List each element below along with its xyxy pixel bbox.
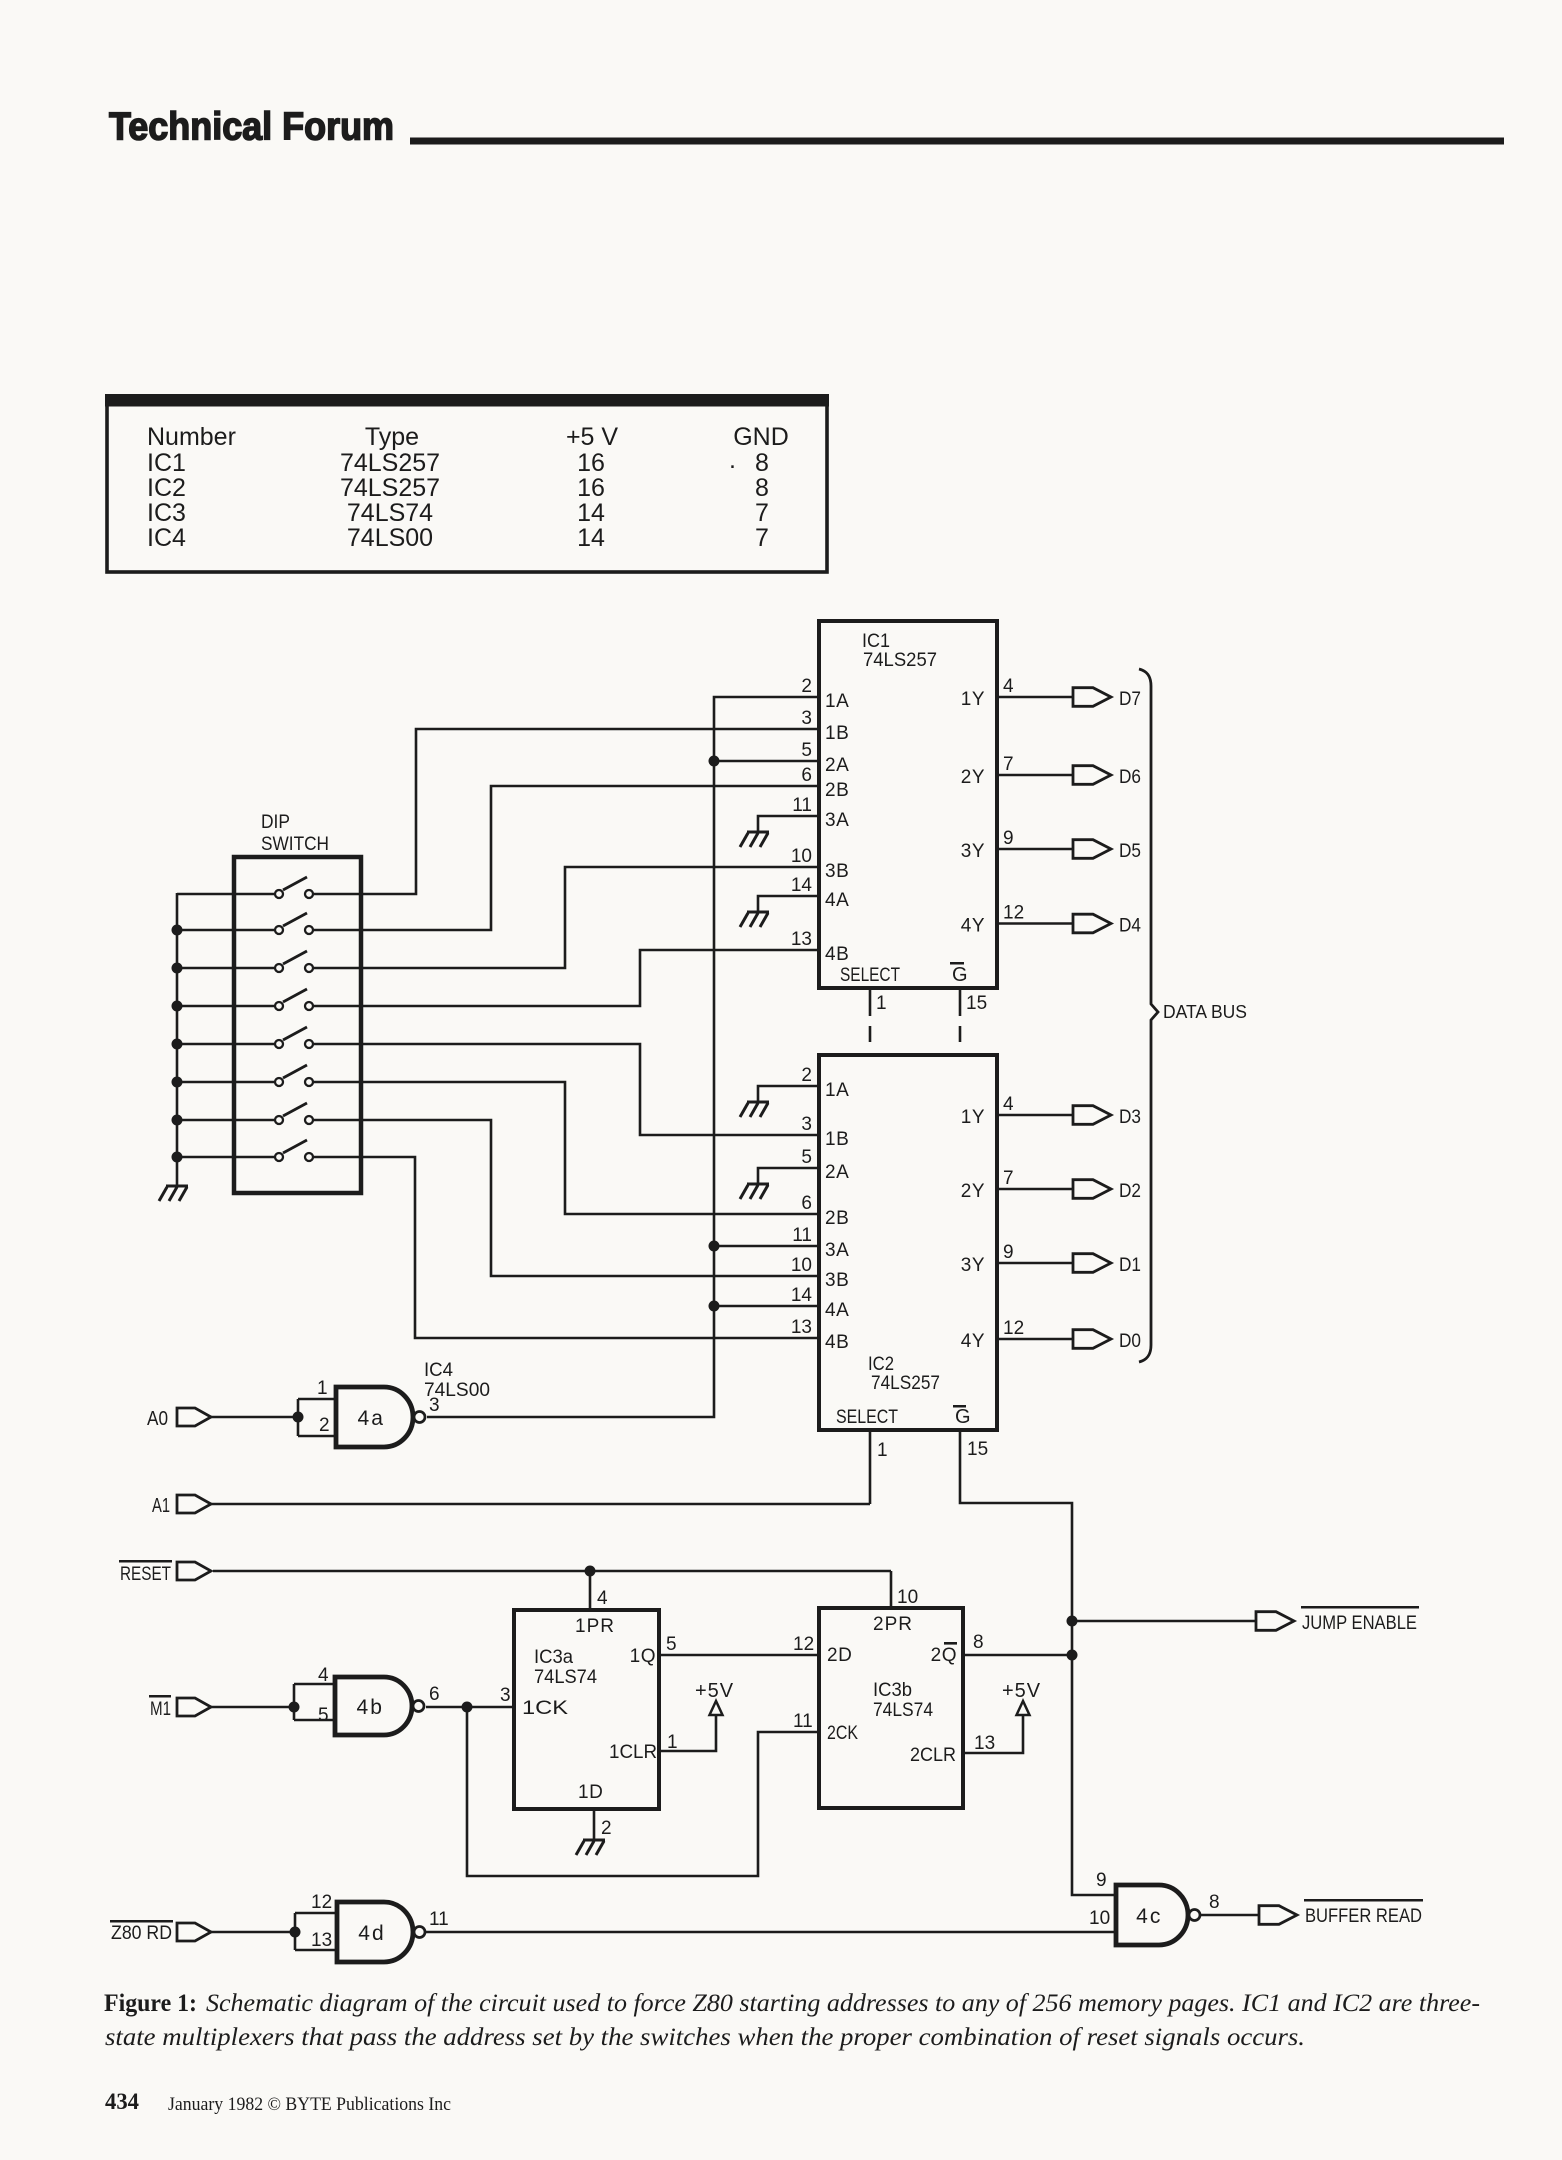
- output flag D7: [1073, 688, 1111, 707]
- svg-text:3: 3: [500, 1685, 511, 1706]
- junction A-select line at IC1 2A: [709, 756, 720, 767]
- ground (IC2 2A): [740, 1184, 769, 1199]
- wire to IC3a 1PR: [589, 1571, 592, 1610]
- svg-text:8: 8: [1209, 1892, 1220, 1913]
- input flag A0: [177, 1408, 211, 1426]
- svg-text:2A: 2A: [825, 1162, 849, 1183]
- svg-text:15: 15: [967, 1439, 988, 1460]
- svg-text:1: 1: [317, 1378, 328, 1399]
- svg-text:7: 7: [1003, 1168, 1014, 1189]
- svg-text:16: 16: [577, 474, 605, 502]
- svg-text:IC2: IC2: [868, 1354, 894, 1375]
- wire net from NAND 4a output to IC1 1A/2A and IC2 3A/4A: [427, 697, 819, 1417]
- svg-text:74LS00: 74LS00: [347, 524, 433, 552]
- junction RESET to 1PR: [585, 1566, 596, 1577]
- svg-text:D6: D6: [1119, 766, 1141, 788]
- wire IC2 4Y to D0: [997, 1338, 1073, 1341]
- svg-text:G: G: [955, 1406, 971, 1428]
- svg-text:4Y: 4Y: [961, 916, 985, 937]
- junction M1 split: [289, 1702, 300, 1713]
- svg-text:IC3: IC3: [147, 499, 186, 527]
- svg-text:1PR: 1PR: [575, 1616, 615, 1637]
- wire IC2 pin 1A to ground: [758, 1086, 819, 1102]
- svg-text:74LS257: 74LS257: [863, 650, 937, 671]
- svg-text:6: 6: [801, 765, 812, 786]
- svg-text:8: 8: [755, 449, 769, 477]
- wire RESET to 1PR/2PR: [213, 1570, 891, 1573]
- svg-text:G: G: [952, 964, 968, 986]
- svg-text:5: 5: [666, 1634, 677, 1655]
- svg-text:4d: 4d: [358, 1922, 385, 1945]
- parts table: [105, 394, 829, 572]
- junction on ground bus row 7: [172, 1115, 183, 1126]
- svg-text:11: 11: [429, 1909, 449, 1930]
- +5V (IC3a 1CLR): [695, 1680, 734, 1716]
- svg-text:3A: 3A: [825, 1240, 849, 1261]
- svg-text:13: 13: [311, 1930, 332, 1951]
- wire switch 4 to IC1 4B: [314, 950, 820, 1006]
- wire switch 8 to IC2 4B: [314, 1157, 820, 1338]
- svg-text:74LS74: 74LS74: [534, 1667, 597, 1688]
- ground (IC3a 1D): [576, 1840, 605, 1855]
- svg-text:14: 14: [577, 524, 605, 552]
- wire IC2 1Y to D3: [997, 1114, 1073, 1117]
- svg-text:12: 12: [1003, 1318, 1024, 1339]
- svg-text:13: 13: [974, 1733, 995, 1754]
- wire IC2 pin 2A to ground: [758, 1168, 819, 1184]
- svg-text:1CLR: 1CLR: [609, 1742, 657, 1763]
- output flag D2: [1073, 1180, 1111, 1199]
- svg-text:3B: 3B: [825, 861, 849, 882]
- svg-text:4: 4: [1003, 1094, 1014, 1115]
- svg-text:1A: 1A: [825, 691, 849, 712]
- junction on ground bus row 6: [172, 1077, 183, 1088]
- switch S1-6: [177, 1065, 313, 1086]
- input flag RESET: [177, 1562, 211, 1580]
- svg-text:GND: GND: [733, 423, 789, 451]
- +5V (IC3b 2CLR): [1002, 1680, 1041, 1716]
- svg-text:IC3b: IC3b: [873, 1680, 912, 1701]
- wire IC2 pin 4A stub: [714, 1305, 819, 1308]
- wire A1 to IC2 SELECT: [211, 1503, 870, 1506]
- svg-text:SELECT: SELECT: [836, 1407, 898, 1428]
- wire IC3a 1D (pin 2) to ground: [593, 1809, 596, 1840]
- svg-text:state multiplexers that pass t: state multiplexers that pass the address…: [105, 2024, 1305, 2051]
- svg-text:2D: 2D: [827, 1645, 852, 1666]
- junction A0 split: [293, 1412, 304, 1423]
- DATA BUS bracket: [1139, 669, 1158, 1362]
- svg-text:74LS257: 74LS257: [340, 474, 440, 502]
- input flag A1: [177, 1495, 211, 1513]
- dashed select link IC1-IC2 pin15: [959, 1026, 962, 1042]
- ground (IC1 4A): [740, 912, 769, 927]
- wire IC2 pin 1 (SELECT) to A1: [869, 1430, 872, 1504]
- wire switch 1 to IC1 1B: [314, 729, 820, 894]
- svg-text:5: 5: [801, 1147, 812, 1168]
- svg-text:January 1982 © BYTE Publicatio: January 1982 © BYTE Publications Inc: [168, 2094, 451, 2115]
- junction on ground bus row 2: [172, 925, 183, 936]
- output flag BUFFER READ: [1259, 1906, 1297, 1925]
- wire 4b output to IC3a 1CK: [426, 1706, 514, 1709]
- wire IC1 3Y to D5: [997, 848, 1073, 851]
- NAND gate U4a (IC4 74LS00): [336, 1387, 425, 1447]
- wire IC1 4Y to D4: [997, 922, 1073, 925]
- svg-text:16: 16: [577, 449, 605, 477]
- svg-text:12: 12: [793, 1634, 814, 1655]
- svg-text:11: 11: [792, 1225, 812, 1246]
- svg-text:4c: 4c: [1136, 1905, 1162, 1928]
- IC1 pin 15 (G) stub: [959, 988, 962, 1016]
- svg-text:1Y: 1Y: [961, 689, 985, 710]
- svg-text:D1: D1: [1119, 1254, 1141, 1276]
- svg-text:10: 10: [1089, 1908, 1110, 1929]
- output flag D6: [1073, 766, 1111, 785]
- flip-flop IC3a 74LS74: [514, 1610, 659, 1809]
- IC1 pin 1 (SELECT) stub: [869, 988, 872, 1016]
- svg-text:4a: 4a: [358, 1407, 385, 1430]
- svg-text:A1: A1: [152, 1495, 170, 1517]
- svg-text:7: 7: [755, 499, 769, 527]
- svg-text:8: 8: [755, 474, 769, 502]
- ground bus wire (left of DIP switch): [176, 893, 179, 1186]
- DIP switch S1: [234, 812, 361, 1193]
- wire to IC3b 2PR: [890, 1571, 893, 1608]
- junction on ground bus row 4: [172, 1001, 183, 1012]
- svg-text:IC1: IC1: [862, 631, 890, 652]
- switch S1-2: [177, 913, 313, 934]
- svg-text:2A: 2A: [825, 755, 849, 776]
- svg-text:Technical Forum: Technical Forum: [109, 106, 394, 149]
- svg-text:3A: 3A: [825, 810, 849, 831]
- wire IC2 pin 15 (G) to jump-enable net: [960, 1430, 1116, 1895]
- svg-text:74LS257: 74LS257: [340, 449, 440, 477]
- svg-text:4B: 4B: [825, 944, 849, 965]
- svg-text:Type: Type: [365, 423, 419, 451]
- svg-text:2B: 2B: [825, 780, 849, 801]
- wire IC2 pin 3A stub: [714, 1245, 819, 1248]
- svg-text:7: 7: [755, 524, 769, 552]
- dashed select link IC1-IC2 pin1: [869, 1026, 872, 1042]
- wire IC3b 2Q (pin 8) to jump-enable net: [963, 1654, 1072, 1657]
- svg-text:Figure 1:: Figure 1:: [104, 1990, 197, 2017]
- wire IC2 3Y to D1: [997, 1262, 1073, 1265]
- svg-text:4: 4: [318, 1665, 329, 1686]
- svg-text:3Y: 3Y: [961, 1255, 985, 1276]
- svg-text:1Y: 1Y: [961, 1107, 985, 1128]
- svg-text:5: 5: [318, 1705, 329, 1726]
- svg-text:74LS74: 74LS74: [873, 1700, 933, 1721]
- input flag Z80 RD: [177, 1923, 211, 1941]
- svg-text:M1: M1: [150, 1699, 171, 1720]
- svg-text:434: 434: [105, 2089, 139, 2114]
- svg-text:+5V: +5V: [1002, 1680, 1041, 1702]
- wire IC1 1Y to D7: [997, 696, 1073, 699]
- svg-text:10: 10: [791, 846, 812, 867]
- svg-text:2: 2: [601, 1818, 612, 1839]
- svg-text:14: 14: [791, 875, 813, 896]
- svg-text:1CK: 1CK: [522, 1698, 568, 1719]
- svg-text:4Y: 4Y: [961, 1331, 985, 1352]
- output flag D0: [1073, 1330, 1111, 1349]
- wire IC1 pin 2A stub: [714, 760, 819, 763]
- svg-text:2: 2: [801, 1065, 812, 1086]
- junction Z80 RD split: [290, 1927, 301, 1938]
- svg-text:.: .: [729, 446, 736, 474]
- svg-text:1B: 1B: [825, 1129, 849, 1150]
- wire switch 3 to IC1 3B: [314, 867, 820, 968]
- svg-text:IC1: IC1: [147, 449, 186, 477]
- svg-text:14: 14: [791, 1285, 813, 1306]
- svg-text:D0: D0: [1119, 1330, 1141, 1352]
- switch S1-1: [177, 877, 313, 898]
- svg-text:IC4: IC4: [424, 1360, 453, 1381]
- svg-text:IC2: IC2: [147, 474, 186, 502]
- junction A-select line at IC2 4A: [709, 1301, 720, 1312]
- svg-text:3B: 3B: [825, 1270, 849, 1291]
- svg-text:13: 13: [791, 1317, 812, 1338]
- ground (IC2 1A): [740, 1102, 769, 1117]
- output flag JUMP ENABLE: [1256, 1612, 1294, 1631]
- svg-text:5: 5: [801, 740, 812, 761]
- svg-text:15: 15: [966, 993, 987, 1014]
- svg-text:2Q: 2Q: [931, 1645, 957, 1666]
- ground (IC1 3A): [740, 832, 769, 847]
- output flag D3: [1073, 1106, 1111, 1125]
- switch S1-3: [177, 951, 313, 972]
- title rule: [410, 138, 1504, 145]
- wire 4d output to 4c pin 10: [424, 1931, 1116, 1934]
- svg-text:4A: 4A: [825, 1300, 849, 1321]
- svg-text:A0: A0: [147, 1408, 168, 1430]
- svg-text:IC3a: IC3a: [534, 1647, 573, 1668]
- multiplexer IC1 74LS257: [819, 621, 997, 988]
- svg-text:DATA BUS: DATA BUS: [1163, 1001, 1247, 1022]
- svg-text:1: 1: [877, 1440, 888, 1461]
- svg-text:2B: 2B: [825, 1208, 849, 1229]
- wire switch 5 to IC2 1B: [314, 1044, 820, 1135]
- wire IC1 pin 3A to ground: [758, 816, 819, 832]
- wire to JUMP ENABLE: [1072, 1620, 1256, 1623]
- svg-text:1: 1: [876, 993, 887, 1014]
- output flag D4: [1073, 914, 1111, 933]
- svg-text:3: 3: [801, 708, 812, 729]
- svg-text:IC4: IC4: [147, 524, 186, 552]
- svg-text:1Q: 1Q: [630, 1646, 656, 1667]
- junction 2Q to G net: [1067, 1650, 1078, 1661]
- NAND gate U4c (IC4 74LS00): [1116, 1885, 1200, 1945]
- svg-text:BUFFER READ: BUFFER READ: [1305, 1906, 1422, 1927]
- svg-text:D2: D2: [1119, 1180, 1141, 1202]
- wire switch 7 to IC2 3B: [314, 1120, 820, 1276]
- wire 4c output to BUFFER READ: [1199, 1914, 1259, 1917]
- svg-text:13: 13: [791, 929, 812, 950]
- svg-text:DIP: DIP: [261, 812, 290, 833]
- input flag M1: [177, 1698, 211, 1716]
- svg-text:4b: 4b: [357, 1696, 384, 1719]
- wire IC3a 1CLR (pin 1) to +5V: [659, 1716, 716, 1751]
- svg-text:D4: D4: [1119, 915, 1141, 937]
- svg-text:10: 10: [897, 1587, 918, 1608]
- wire A0 to NAND 4a inputs: [211, 1416, 298, 1419]
- svg-text:74LS257: 74LS257: [871, 1373, 940, 1394]
- svg-text:RESET: RESET: [120, 1564, 171, 1585]
- svg-text:Z80 RD: Z80 RD: [111, 1923, 172, 1944]
- svg-text:9: 9: [1003, 828, 1014, 849]
- svg-text:7: 7: [1003, 754, 1014, 775]
- svg-text:2CK: 2CK: [827, 1723, 858, 1744]
- svg-text:10: 10: [791, 1255, 812, 1276]
- svg-text:2: 2: [319, 1415, 330, 1436]
- switch S1-7: [177, 1103, 313, 1124]
- svg-text:11: 11: [792, 795, 812, 816]
- ground (DIP switch bus): [159, 1186, 188, 1201]
- svg-text:9: 9: [1003, 1242, 1014, 1263]
- svg-text:12: 12: [311, 1892, 332, 1913]
- wire IC1 pin 4A to ground: [758, 896, 819, 912]
- junction on ground bus row 5: [172, 1039, 183, 1050]
- svg-text:4: 4: [1003, 676, 1014, 697]
- NAND gate U4d (IC4 74LS00): [337, 1902, 425, 1962]
- svg-text:+5 V: +5 V: [566, 423, 618, 451]
- wire IC2 2Y to D2: [997, 1188, 1073, 1191]
- svg-text:9: 9: [1096, 1870, 1107, 1891]
- svg-text:1D: 1D: [578, 1782, 603, 1803]
- svg-text:1B: 1B: [825, 723, 849, 744]
- svg-text:D3: D3: [1119, 1106, 1141, 1128]
- svg-text:12: 12: [1003, 903, 1024, 924]
- switch S1-8: [177, 1140, 313, 1161]
- multiplexer IC2 74LS257: [819, 1055, 997, 1430]
- svg-text:74LS74: 74LS74: [347, 499, 433, 527]
- svg-text:6: 6: [429, 1684, 440, 1705]
- output flag D1: [1073, 1254, 1111, 1273]
- junction on ground bus row 8: [172, 1152, 183, 1163]
- wire M1 to NAND 4b inputs: [211, 1706, 294, 1709]
- svg-text:D7: D7: [1119, 688, 1141, 710]
- svg-text:1A: 1A: [825, 1080, 849, 1101]
- svg-text:6: 6: [801, 1193, 812, 1214]
- svg-text:Schematic diagram of the circu: Schematic diagram of the circuit used to…: [206, 1990, 1480, 2017]
- svg-text:4B: 4B: [825, 1332, 849, 1353]
- junction G net to JUMP ENABLE: [1067, 1616, 1078, 1627]
- wire IC1 2Y to D6: [997, 774, 1073, 777]
- svg-text:3: 3: [801, 1114, 812, 1135]
- svg-text:2CLR: 2CLR: [910, 1745, 956, 1766]
- svg-text:1: 1: [667, 1732, 678, 1753]
- svg-text:14: 14: [577, 499, 605, 527]
- junction 4b output to 2CK route: [462, 1702, 473, 1713]
- wire IC3b 2CLR (pin 13) to +5V: [963, 1716, 1023, 1753]
- junction on ground bus row 3: [172, 963, 183, 974]
- switch S1-5: [177, 1027, 313, 1048]
- svg-text:4A: 4A: [825, 890, 849, 911]
- svg-text:SWITCH: SWITCH: [261, 834, 329, 855]
- svg-text:D5: D5: [1119, 840, 1141, 862]
- output flag D5: [1073, 840, 1111, 859]
- wire IC3a 1Q (pin 5) to IC3b 2D (pin 12): [659, 1654, 819, 1657]
- svg-text:2Y: 2Y: [961, 767, 985, 788]
- svg-text:SELECT: SELECT: [840, 965, 900, 986]
- junction A-select line at IC2 3A: [709, 1241, 720, 1252]
- svg-text:4: 4: [597, 1588, 608, 1609]
- svg-text:11: 11: [793, 1711, 813, 1732]
- svg-text:2PR: 2PR: [873, 1614, 913, 1635]
- svg-text:JUMP ENABLE: JUMP ENABLE: [1302, 1613, 1417, 1634]
- svg-text:+5V: +5V: [695, 1680, 734, 1702]
- svg-text:2: 2: [801, 676, 812, 697]
- svg-text:3Y: 3Y: [961, 841, 985, 862]
- svg-text:Number: Number: [147, 423, 236, 451]
- wire switch 6 to IC2 2B: [314, 1082, 820, 1214]
- wire switch 2 to IC1 2B: [314, 786, 820, 930]
- svg-text:8: 8: [973, 1632, 984, 1653]
- flip-flop IC3b 74LS74: [819, 1608, 963, 1808]
- switch S1-4: [177, 989, 313, 1010]
- svg-text:3: 3: [429, 1395, 440, 1416]
- wire 4b output to IC3b 2CK (pin 11): [467, 1707, 819, 1876]
- svg-text:2Y: 2Y: [961, 1181, 985, 1202]
- NAND gate U4b (IC4 74LS00): [335, 1677, 424, 1735]
- wire Z80 RD to NAND 4d inputs: [211, 1931, 295, 1934]
